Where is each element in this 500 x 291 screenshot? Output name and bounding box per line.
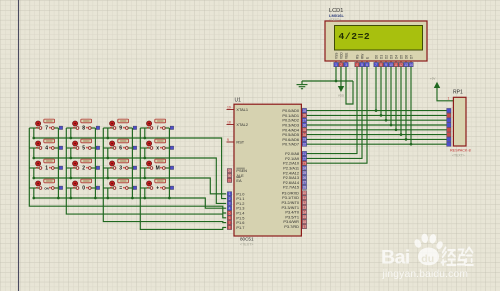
junction row 4 bus tap c4	[143, 197, 146, 200]
svg-text:3: 3	[119, 166, 122, 172]
svg-text:9: 9	[385, 63, 387, 67]
junction row 2 bus tap c3	[106, 157, 109, 160]
svg-text:du: du	[421, 253, 434, 265]
junction row 4 bus tap c3	[106, 197, 109, 200]
LCD pin 5 (RW)	[360, 54, 365, 67]
wire keypad row 2 bus to P1 pin	[34, 158, 226, 203]
wire keypad column 1 left net to P1.4	[29, 128, 226, 213]
svg-text:5: 5	[361, 63, 363, 67]
junction column 1 right join row4 bus	[57, 197, 60, 200]
svg-text:RW: RW	[360, 54, 364, 59]
RP1 pin 9 state box	[447, 142, 451, 146]
wire button r1c1 right lead	[53, 127, 59, 129]
svg-text:D0: D0	[374, 55, 378, 59]
wire button r2c4 right lead	[164, 147, 170, 149]
junction row 3 bus tap c1	[32, 177, 35, 180]
svg-text:6: 6	[229, 216, 231, 220]
push-button key "5" row 2 col 2	[73, 139, 100, 152]
svg-text:<TEXT>: <TEXT>	[240, 243, 253, 247]
wire button r3c4 left lead	[140, 167, 151, 169]
svg-text:9: 9	[119, 126, 122, 132]
svg-text:19: 19	[227, 105, 231, 109]
wire button r1c3 right lead	[127, 127, 133, 129]
svg-text:D5: D5	[399, 55, 403, 59]
wire button r1c1 left lead	[29, 127, 40, 129]
wire button r3c4 drop to row bus	[144, 168, 146, 178]
svg-text:2: 2	[82, 166, 85, 172]
svg-text:34: 34	[303, 133, 307, 137]
wire P0.1 to RP1 pin 3	[301, 114, 446, 116]
svg-text:U1: U1	[235, 98, 242, 104]
wire RP1 pin1 to power	[437, 88, 453, 101]
svg-text:5: 5	[229, 211, 231, 215]
wire button r3c2 drop to row bus	[70, 168, 72, 178]
U1 pin 30 state box	[227, 173, 231, 177]
svg-text:1: 1	[229, 192, 231, 196]
junction row 1 bus tap c2	[69, 137, 72, 140]
junction row 1 bus tap c1	[32, 137, 35, 140]
svg-text:37: 37	[303, 119, 307, 123]
LCD pin 14 (D7)	[409, 55, 414, 67]
wire P2.0 to LCD RS	[301, 67, 357, 154]
LCD pin 4 (RS)	[355, 55, 360, 67]
svg-text:6: 6	[366, 63, 368, 67]
wire button r2c4 drop to row bus	[144, 148, 146, 158]
wire button r1c2 right lead	[90, 127, 96, 129]
wire P0.5 to RP1 pin 7	[301, 134, 446, 136]
wire button r4c1 right lead	[53, 187, 59, 189]
svg-text:16: 16	[303, 220, 307, 224]
svg-text:25: 25	[303, 171, 307, 175]
junction column 2 right join row4 bus	[94, 197, 97, 200]
junction column 3 right join row4 bus	[131, 197, 134, 200]
RP1 pin 4 state box	[447, 118, 451, 122]
svg-text:XTAL2: XTAL2	[236, 122, 248, 127]
svg-text:D2: D2	[384, 55, 388, 59]
svg-text:14: 14	[409, 63, 413, 67]
LCD pin 9 (D2)	[384, 55, 389, 67]
wire keypad column 3 right vertical	[131, 128, 133, 198]
svg-text:0: 0	[82, 186, 85, 192]
svg-text:9: 9	[227, 138, 229, 142]
LCD pin 6 (E)	[365, 57, 370, 67]
push-button key "x" row 2 col 4	[147, 139, 174, 152]
push-button key "1" row 3 col 1	[36, 159, 63, 172]
wire LCD D7 to P0.7	[410, 67, 412, 144]
svg-text:D1: D1	[379, 55, 383, 59]
junction column 4 right join row4 bus	[168, 197, 171, 200]
svg-text:26: 26	[303, 176, 307, 180]
wire keypad row 4 bus to P1 pin	[34, 198, 226, 208]
U1 pin 4 state box (P1.3)	[227, 206, 231, 210]
wire button r3c2 left lead	[66, 167, 77, 169]
push-button key "6" row 2 col 3	[110, 139, 137, 152]
svg-text:30: 30	[228, 174, 232, 178]
svg-text:8: 8	[82, 126, 85, 132]
junction row 4 bus tap c2	[69, 197, 72, 200]
U1 pin 9 stub (RST)	[227, 141, 235, 143]
junction row 3 bus tap c4	[143, 177, 146, 180]
wire button r3c1 right lead	[53, 167, 59, 169]
U1 pin 17 state box (P3.7)	[302, 224, 306, 228]
svg-text:D7: D7	[409, 55, 413, 59]
junction D0/P0.0 junction	[375, 109, 378, 112]
svg-text:3: 3	[345, 63, 347, 67]
push-button key "8" row 1 col 2	[73, 119, 100, 132]
svg-text:6: 6	[119, 146, 122, 152]
junction row 2 bus tap c4	[143, 157, 146, 160]
wire button r4c1 left lead	[29, 187, 40, 189]
junction D6/P0.6 junction	[405, 138, 408, 141]
LCD pin 8 (D1)	[379, 55, 384, 67]
wire P0.3 to RP1 pin 5	[301, 124, 446, 126]
svg-text:7: 7	[375, 63, 377, 67]
wire keypad column 2 right vertical	[94, 128, 96, 198]
svg-text:P2.7/A15: P2.7/A15	[283, 185, 299, 190]
U1 pin 24 state box (P2.3)	[302, 166, 306, 170]
LCD pin 10 (D3)	[389, 55, 394, 67]
push-button key "M" row 3 col 4	[147, 159, 174, 172]
svg-text:x: x	[156, 146, 159, 152]
LCD pin 13 (D6)	[404, 55, 409, 67]
svg-text:1: 1	[448, 97, 450, 101]
push-button key "7" row 1 col 1	[36, 119, 63, 132]
U1 pin 33 state box (P0.6)	[302, 137, 306, 141]
U1 pin 13 state box (P3.3)	[302, 205, 306, 209]
svg-text:8: 8	[229, 226, 231, 230]
U1 pin 15 state box (P3.5)	[302, 215, 306, 219]
svg-text:RESPACK-8: RESPACK-8	[450, 149, 471, 153]
svg-text:3: 3	[229, 202, 231, 206]
wire ground rail drop	[301, 81, 303, 84]
svg-text:11: 11	[303, 196, 307, 200]
wire LCD pin1 VSS down	[335, 67, 337, 81]
junction D2/P0.2 junction	[385, 119, 388, 122]
junction row 3 bus tap c3	[106, 177, 109, 180]
wire P2.2 to LCD E	[301, 67, 367, 163]
wire LCD D1 to P0.1	[380, 67, 382, 115]
svg-text:7: 7	[229, 221, 231, 225]
svg-text:10: 10	[303, 191, 307, 195]
Baidu Jingyan watermark	[381, 233, 473, 280]
svg-text:RP1: RP1	[453, 90, 463, 96]
svg-text:M: M	[156, 166, 160, 172]
wire button r2c3 right lead	[127, 147, 133, 149]
junction D3/P0.3 junction	[390, 124, 393, 127]
svg-text:13: 13	[303, 206, 307, 210]
U1 pin 10 state box (P3.0)	[302, 191, 306, 195]
svg-text:32: 32	[303, 143, 307, 147]
svg-text:24: 24	[303, 166, 307, 170]
push-button key "9" row 1 col 3	[110, 119, 137, 132]
push-button key "ON" row 4 col 1	[36, 179, 63, 191]
junction D5/P0.5 junction	[400, 133, 403, 136]
U1 pin 7 state box (P1.6)	[227, 220, 231, 224]
U1 pin 14 state box (P3.4)	[302, 210, 306, 214]
U1 pin 3 state box (P1.2)	[227, 201, 231, 205]
svg-text:4: 4	[356, 63, 358, 67]
LCD module LCD1 LM016L	[325, 21, 427, 61]
LCD pin 3 (VEE)	[344, 53, 349, 67]
junction D1/P0.1 junction	[380, 114, 383, 117]
wire P0.7 to RP1 pin 9	[301, 143, 446, 145]
svg-text:27: 27	[303, 181, 307, 185]
svg-text:jingyan.baidu.com: jingyan.baidu.com	[382, 269, 469, 280]
svg-text:P0.7/AD7: P0.7/AD7	[282, 142, 299, 147]
svg-text:33: 33	[303, 138, 307, 142]
svg-text:Bai: Bai	[381, 247, 410, 269]
U1 pin 36 state box (P0.3)	[302, 123, 306, 127]
wire button r1c4 drop to row bus	[144, 128, 146, 138]
svg-text:RS: RS	[355, 55, 359, 59]
junction row 3 bus tap c2	[69, 177, 72, 180]
wire LCD D0 to P0.0	[375, 67, 377, 111]
wire button r4c2 left lead	[66, 187, 77, 189]
svg-text:29: 29	[228, 169, 232, 173]
svg-text:VDD: VDD	[338, 94, 345, 98]
wire button r2c2 left lead	[66, 147, 77, 149]
sheet border line	[18, 0, 20, 291]
wire button r1c3 left lead	[103, 127, 114, 129]
wire ground rail horizontal	[302, 80, 353, 82]
wire P0.2 to RP1 pin 4	[301, 119, 446, 121]
RP1 pin 7 state box	[447, 132, 451, 136]
LCD pin 11 (D4)	[394, 55, 399, 67]
resistor pack RP1 RESPACK-8	[453, 97, 466, 146]
U1 pin 12 state box (P3.2)	[302, 200, 306, 204]
wire P0.0 to RP1 pin 2	[301, 110, 446, 112]
svg-text:XTAL1: XTAL1	[236, 107, 248, 112]
U1 pin 25 state box (P2.4)	[302, 171, 306, 175]
U1 pin 18 stub (XTAL2)	[227, 124, 235, 126]
svg-text:36: 36	[303, 123, 307, 127]
svg-text:VSS: VSS	[334, 53, 338, 59]
svg-text:17: 17	[303, 225, 307, 229]
U1 pin 23 state box (P2.2)	[302, 161, 306, 165]
wire button r4c3 right lead	[127, 187, 133, 189]
wire button r1c4 left lead	[140, 127, 151, 129]
wire button r3c1 drop to row bus	[33, 168, 35, 178]
wire button r4c4 left lead	[140, 187, 151, 189]
wire LCD D2 to P0.2	[385, 67, 387, 120]
RP1 pin 8 state box	[447, 137, 451, 141]
U1 pin 28 state box (P2.7)	[302, 185, 306, 189]
svg-text:VEE: VEE	[344, 53, 348, 59]
LCD pin 2 (VDD)	[339, 52, 344, 67]
junction row 2 bus tap c2	[69, 157, 72, 160]
svg-text:12: 12	[303, 201, 307, 205]
wire button r1c3 drop to row bus	[107, 128, 109, 138]
wire button r1c4 right lead	[164, 127, 170, 129]
U1 pin 38 state box (P0.1)	[302, 113, 306, 117]
wire button r3c2 right lead	[90, 167, 96, 169]
svg-text:13: 13	[404, 63, 408, 67]
U1 pin 34 state box (P0.5)	[302, 132, 306, 136]
wire keypad row 3 bus to P1 pin	[34, 178, 226, 194]
svg-text:12: 12	[399, 63, 403, 67]
push-button key "=" row 4 col 3	[110, 179, 137, 192]
microcontroller U1	[234, 104, 301, 236]
RP1 pin 5 state box	[447, 123, 451, 127]
U1 pin 39 state box (P0.0)	[302, 108, 306, 112]
wire button r4c4 right lead	[164, 187, 170, 189]
wire button r2c2 right lead	[90, 147, 96, 149]
wire P0.4 to RP1 pin 6	[301, 129, 446, 131]
svg-text:ON: ON	[44, 187, 49, 191]
wire button r3c1 left lead	[29, 167, 40, 169]
wire LCD pin2 VDD down	[340, 67, 342, 86]
push-button key "4" row 2 col 1	[36, 139, 63, 152]
U1 pin 6 state box (P1.5)	[227, 216, 231, 220]
svg-text:7: 7	[45, 126, 48, 132]
svg-text:23: 23	[303, 162, 307, 166]
push-button key "3" row 3 col 3	[110, 159, 137, 172]
wire button r2c3 left lead	[103, 147, 114, 149]
svg-text:28: 28	[303, 186, 307, 190]
wire keypad column 1 right vertical	[57, 128, 59, 198]
svg-text:14: 14	[303, 210, 307, 214]
wire P2.1 to LCD RW	[301, 67, 362, 158]
svg-text:8: 8	[380, 63, 382, 67]
wire button r2c1 drop to row bus	[33, 148, 35, 158]
U1 pin 29 state box	[227, 169, 231, 173]
svg-text:1: 1	[335, 63, 337, 67]
svg-text:<TEXT>: <TEXT>	[329, 18, 341, 22]
wire button r1c2 drop to row bus	[70, 128, 72, 138]
svg-text:35: 35	[303, 128, 307, 132]
svg-text:2: 2	[340, 63, 342, 67]
LCD pin 1 (VSS)	[334, 53, 339, 67]
svg-text:4/2=2: 4/2=2	[339, 31, 371, 42]
svg-text:P1.7: P1.7	[236, 225, 244, 230]
U1 pin 1 state box (P1.0)	[227, 192, 231, 196]
svg-text:VDD: VDD	[339, 52, 343, 59]
svg-text:+: +	[156, 186, 159, 192]
wire LCD pin3 VEE loop to ground	[346, 67, 353, 104]
U1 pin 16 state box (P3.6)	[302, 220, 306, 224]
svg-text:18: 18	[227, 120, 231, 124]
svg-text:4: 4	[45, 146, 48, 152]
wire button r2c1 right lead	[53, 147, 59, 149]
svg-text:39: 39	[303, 109, 307, 113]
svg-text:21: 21	[303, 152, 307, 156]
svg-text:2: 2	[229, 197, 231, 201]
svg-text:D4: D4	[394, 55, 398, 59]
svg-text:38: 38	[303, 114, 307, 118]
wire LCD D5 to P0.5	[400, 67, 402, 135]
svg-text:31: 31	[228, 179, 232, 183]
U1 pin 37 state box (P0.2)	[302, 118, 306, 122]
ground symbol	[297, 85, 308, 89]
wire button r3c3 left lead	[103, 167, 114, 169]
wire button r1c2 left lead	[66, 127, 77, 129]
svg-text:RST: RST	[236, 140, 244, 145]
svg-text:<TEXT>: <TEXT>	[452, 154, 465, 158]
junction D7/P0.7 junction	[410, 143, 413, 146]
junction row 4 bus tap c1	[32, 197, 35, 200]
wire keypad column 4 right vertical	[168, 128, 170, 198]
svg-text:D6: D6	[404, 55, 408, 59]
U1 pin 27 state box (P2.6)	[302, 180, 306, 184]
wire button r4c2 right lead	[90, 187, 96, 189]
svg-text:EA: EA	[236, 178, 242, 183]
junction VSS/ground junction	[335, 80, 338, 83]
junction row 2 bus tap c1	[32, 157, 35, 160]
U1 pin 22 state box (P2.1)	[302, 156, 306, 160]
U1 pin 21 state box (P2.0)	[302, 151, 306, 155]
wire keypad column 4 left net to P1.7	[140, 128, 226, 229]
U1 pin 32 state box (P0.7)	[302, 142, 306, 146]
svg-text:15: 15	[303, 215, 307, 219]
wire button r4c3 left lead	[103, 187, 114, 189]
power symbol VDD (arrow down)	[338, 86, 345, 98]
wire P0.6 to RP1 pin 8	[301, 138, 446, 140]
wire button r1c1 drop to row bus	[33, 128, 35, 138]
wire button r3c3 right lead	[127, 167, 133, 169]
svg-text:11: 11	[394, 63, 398, 67]
wire button r4c1 drop to row bus	[33, 188, 35, 198]
svg-text:+5V: +5V	[430, 77, 435, 81]
junction row 1 bus tap c4	[143, 137, 146, 140]
U1 pin 11 state box (P3.1)	[302, 196, 306, 200]
wire button r4c3 drop to row bus	[107, 188, 109, 198]
U1 pin 2 state box (P1.1)	[227, 196, 231, 200]
wire button r2c4 left lead	[140, 147, 151, 149]
svg-text:=: =	[119, 186, 122, 192]
junction D4/P0.4 junction	[395, 128, 398, 131]
push-button key "0" row 4 col 2	[73, 179, 100, 192]
svg-text:E: E	[365, 57, 369, 59]
wire button r2c3 drop to row bus	[107, 148, 109, 158]
U1 pin 35 state box (P0.4)	[302, 128, 306, 132]
RP1 pin 2 state box	[447, 108, 451, 112]
RP1 pin 6 state box	[447, 128, 451, 132]
U1 pin 5 state box (P1.4)	[227, 211, 231, 215]
junction row 1 bus tap c3	[106, 137, 109, 140]
wire keypad row 1 bus to P1 pin	[34, 138, 226, 199]
svg-text:P3.7/RD: P3.7/RD	[284, 224, 299, 229]
U1 pin 26 state box (P2.5)	[302, 175, 306, 179]
LCD pin 12 (D5)	[399, 55, 404, 67]
svg-text:80C51: 80C51	[240, 237, 254, 242]
wire button r4c2 drop to row bus	[70, 188, 72, 198]
svg-text:5: 5	[82, 146, 85, 152]
RP1 pin 3 state box	[447, 113, 451, 117]
svg-text:1: 1	[45, 166, 48, 172]
wire LCD D4 to P0.4	[395, 67, 397, 130]
wire LCD D6 to P0.6	[405, 67, 407, 139]
push-button key "/" row 1 col 4	[147, 119, 174, 132]
wire button r2c1 left lead	[29, 147, 40, 149]
U1 pin 31 state box	[227, 178, 231, 182]
LCD pin 7 (D0)	[374, 55, 379, 67]
wire button r4c4 drop to row bus	[144, 188, 146, 198]
wire button r3c4 right lead	[164, 167, 170, 169]
wire keypad column 2 left net to P1.5	[66, 128, 226, 218]
svg-text:10: 10	[389, 63, 393, 67]
svg-text:22: 22	[303, 157, 307, 161]
wire LCD D3 to P0.3	[390, 67, 392, 125]
push-button key "2" row 3 col 2	[73, 159, 100, 172]
wire button r2c2 drop to row bus	[70, 148, 72, 158]
wire button r3c3 drop to row bus	[107, 168, 109, 178]
svg-text:4: 4	[229, 207, 231, 211]
svg-text:D3: D3	[389, 55, 393, 59]
U1 pin 19 stub (XTAL1)	[227, 109, 235, 111]
U1 pin 8 state box (P1.7)	[227, 225, 231, 229]
wire keypad column 3 left net to P1.6	[103, 128, 226, 223]
power symbol VCC (arrow up)	[430, 77, 440, 89]
